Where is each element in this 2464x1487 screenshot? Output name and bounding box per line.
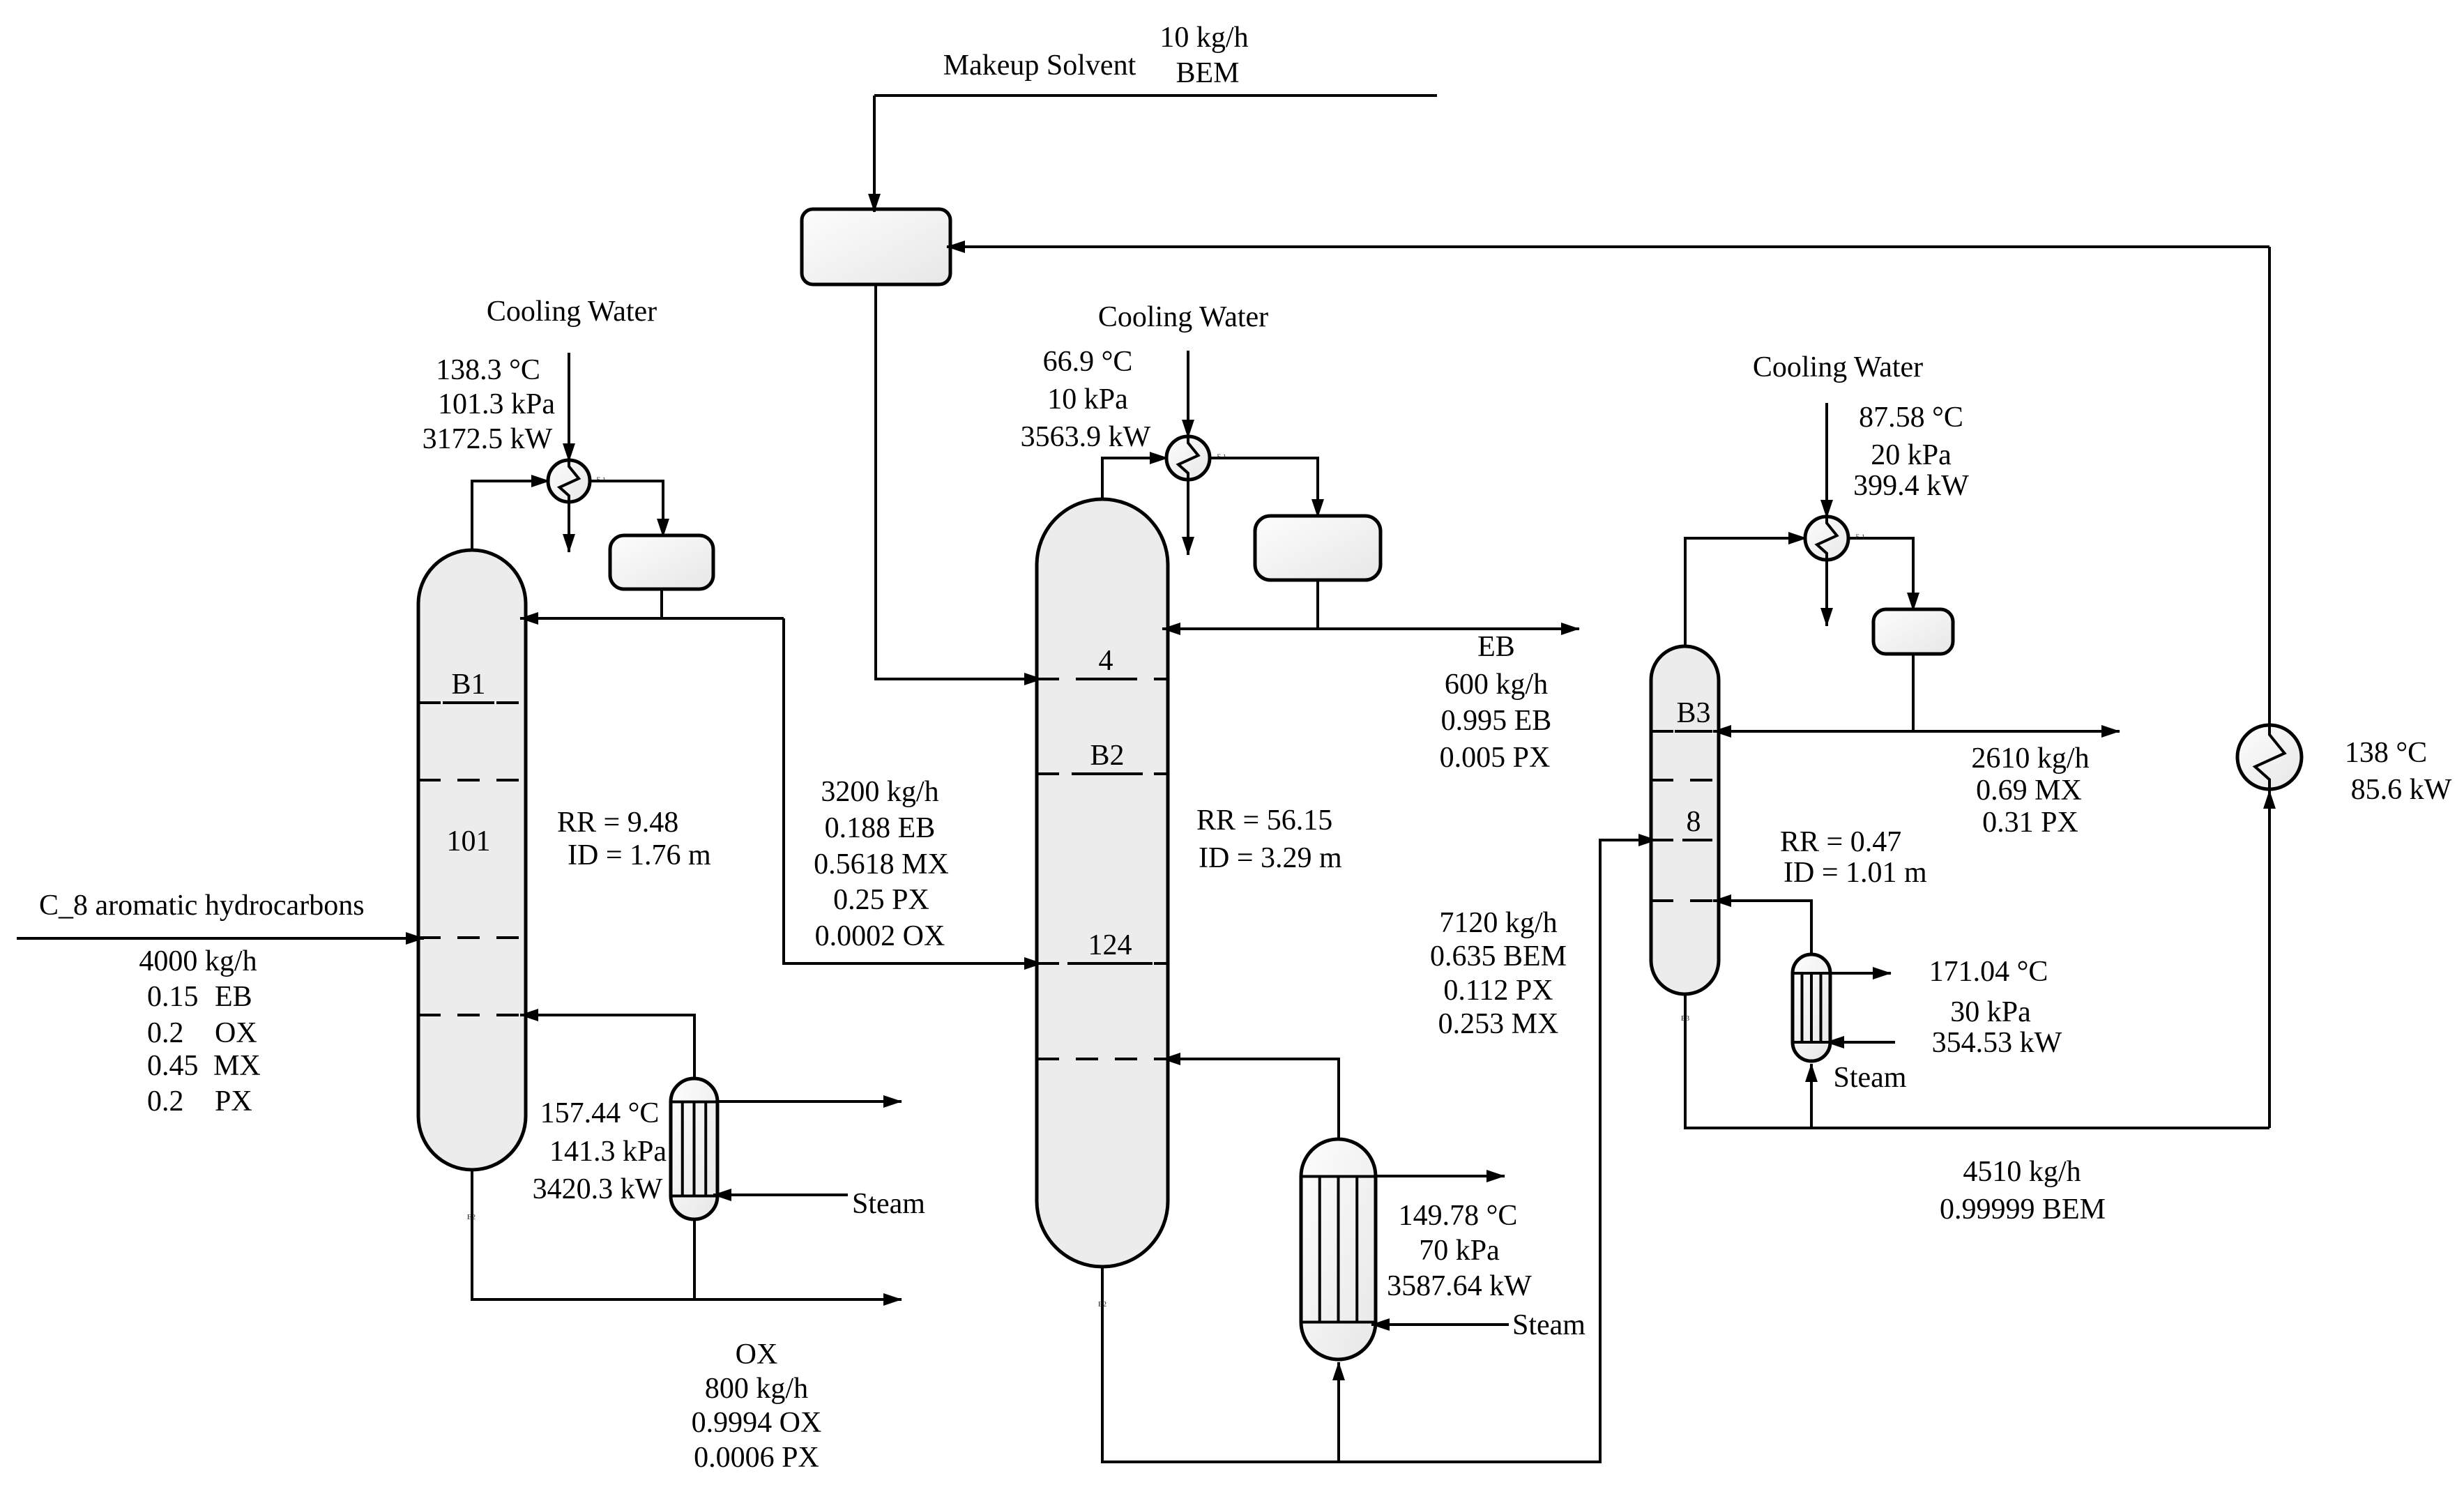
svg-text:0.5618 MX: 0.5618 MX: [814, 848, 949, 880]
svg-text:3172.5 kW: 3172.5 kW: [423, 423, 553, 455]
svg-text:Cooling Water: Cooling Water: [1098, 301, 1268, 333]
svg-text:0.69 MX: 0.69 MX: [1976, 775, 2082, 807]
svg-text:124: 124: [1088, 929, 1132, 961]
svg-text:RR = 56.15: RR = 56.15: [1196, 804, 1332, 837]
svg-text:0.2: 0.2: [147, 1085, 184, 1118]
svg-text:0.15: 0.15: [147, 981, 199, 1013]
svg-text:EB: EB: [215, 981, 252, 1013]
svg-text:B3: B3: [1676, 697, 1710, 729]
svg-text:Cooling Water: Cooling Water: [1753, 351, 1923, 383]
svg-text:3563.9 kW: 3563.9 kW: [1021, 421, 1151, 453]
svg-text:B1: B1: [451, 669, 485, 701]
svg-text:0.635 BEM: 0.635 BEM: [1430, 940, 1567, 973]
svg-text:800 kg/h: 800 kg/h: [705, 1373, 808, 1405]
svg-text:PX: PX: [215, 1085, 252, 1118]
svg-text:87.58 °C: 87.58 °C: [1859, 402, 1963, 434]
svg-text:10 kPa: 10 kPa: [1047, 383, 1128, 415]
svg-text:E2: E2: [1098, 1300, 1106, 1309]
svg-text:Makeup Solvent: Makeup Solvent: [943, 49, 1136, 82]
svg-text:0.005 PX: 0.005 PX: [1440, 742, 1551, 774]
svg-text:149.78 °C: 149.78 °C: [1399, 1200, 1518, 1232]
svg-text:354.53 kW: 354.53 kW: [1932, 1027, 2062, 1059]
svg-text:7120 kg/h: 7120 kg/h: [1439, 907, 1557, 939]
svg-text:E-1: E-1: [1217, 453, 1226, 460]
svg-text:85.6 kW: 85.6 kW: [2351, 774, 2452, 806]
svg-text:3420.3 kW: 3420.3 kW: [533, 1173, 663, 1205]
svg-text:C_8 aromatic hydrocarbons: C_8 aromatic hydrocarbons: [39, 890, 365, 922]
svg-text:101.3 kPa: 101.3 kPa: [438, 388, 555, 420]
svg-text:101: 101: [447, 825, 491, 857]
svg-text:Steam: Steam: [852, 1188, 925, 1220]
svg-text:E3: E3: [1681, 1014, 1690, 1023]
svg-text:OX: OX: [736, 1339, 778, 1371]
svg-text:E2: E2: [467, 1213, 476, 1221]
svg-text:0.9994 OX: 0.9994 OX: [692, 1407, 822, 1439]
svg-text:4510 kg/h: 4510 kg/h: [1963, 1156, 2081, 1188]
svg-text:4: 4: [1099, 645, 1113, 677]
svg-text:171.04 °C: 171.04 °C: [1929, 956, 2048, 988]
svg-text:600 kg/h: 600 kg/h: [1445, 669, 1548, 701]
svg-text:141.3 kPa: 141.3 kPa: [549, 1136, 667, 1168]
svg-text:138 °C: 138 °C: [2345, 737, 2427, 769]
svg-text:4000 kg/h: 4000 kg/h: [139, 945, 257, 977]
svg-text:0.253 MX: 0.253 MX: [1438, 1008, 1559, 1040]
svg-text:0.45: 0.45: [147, 1050, 199, 1082]
svg-text:157.44 °C: 157.44 °C: [540, 1097, 660, 1129]
svg-text:30 kPa: 30 kPa: [1950, 996, 2031, 1028]
svg-text:0.25 PX: 0.25 PX: [833, 884, 929, 916]
svg-text:138.3 °C: 138.3 °C: [436, 354, 540, 386]
svg-text:3587.64 kW: 3587.64 kW: [1387, 1270, 1532, 1302]
svg-text:ID = 1.01 m: ID = 1.01 m: [1784, 857, 1927, 889]
svg-text:Cooling Water: Cooling Water: [487, 296, 657, 328]
svg-text:0.99999 BEM: 0.99999 BEM: [1940, 1194, 2106, 1226]
svg-text:0.112 PX: 0.112 PX: [1443, 975, 1553, 1007]
svg-text:0.0006 PX: 0.0006 PX: [694, 1442, 819, 1474]
svg-text:0.2: 0.2: [147, 1017, 184, 1049]
svg-text:ID = 1.76 m: ID = 1.76 m: [568, 839, 711, 871]
svg-text:0.995 EB: 0.995 EB: [1441, 705, 1552, 737]
svg-text:Steam: Steam: [1834, 1062, 1907, 1094]
svg-text:0.31 PX: 0.31 PX: [1982, 807, 2078, 839]
svg-text:MX: MX: [213, 1050, 261, 1082]
svg-text:2610 kg/h: 2610 kg/h: [1971, 742, 2089, 775]
svg-text:BEM: BEM: [1176, 57, 1239, 89]
svg-text:66.9 °C: 66.9 °C: [1043, 346, 1133, 378]
svg-text:3200 kg/h: 3200 kg/h: [821, 776, 938, 808]
svg-text:70 kPa: 70 kPa: [1419, 1235, 1500, 1267]
svg-text:E-1: E-1: [597, 476, 606, 483]
svg-text:Steam: Steam: [1512, 1309, 1585, 1341]
svg-text:B2: B2: [1090, 740, 1124, 772]
svg-text:399.4 kW: 399.4 kW: [1853, 470, 1969, 502]
svg-text:RR = 9.48: RR = 9.48: [557, 807, 678, 839]
svg-text:E-1: E-1: [1856, 533, 1865, 540]
svg-text:EB: EB: [1477, 631, 1515, 663]
svg-text:RR = 0.47: RR = 0.47: [1780, 826, 1901, 858]
svg-text:ID = 3.29 m: ID = 3.29 m: [1199, 842, 1342, 874]
svg-text:OX: OX: [215, 1017, 257, 1049]
svg-text:0.188 EB: 0.188 EB: [825, 812, 936, 844]
svg-text:0.0002 OX: 0.0002 OX: [815, 920, 945, 952]
svg-text:8: 8: [1687, 806, 1701, 838]
svg-text:20 kPa: 20 kPa: [1871, 439, 1952, 471]
svg-text:10 kg/h: 10 kg/h: [1159, 22, 1248, 54]
